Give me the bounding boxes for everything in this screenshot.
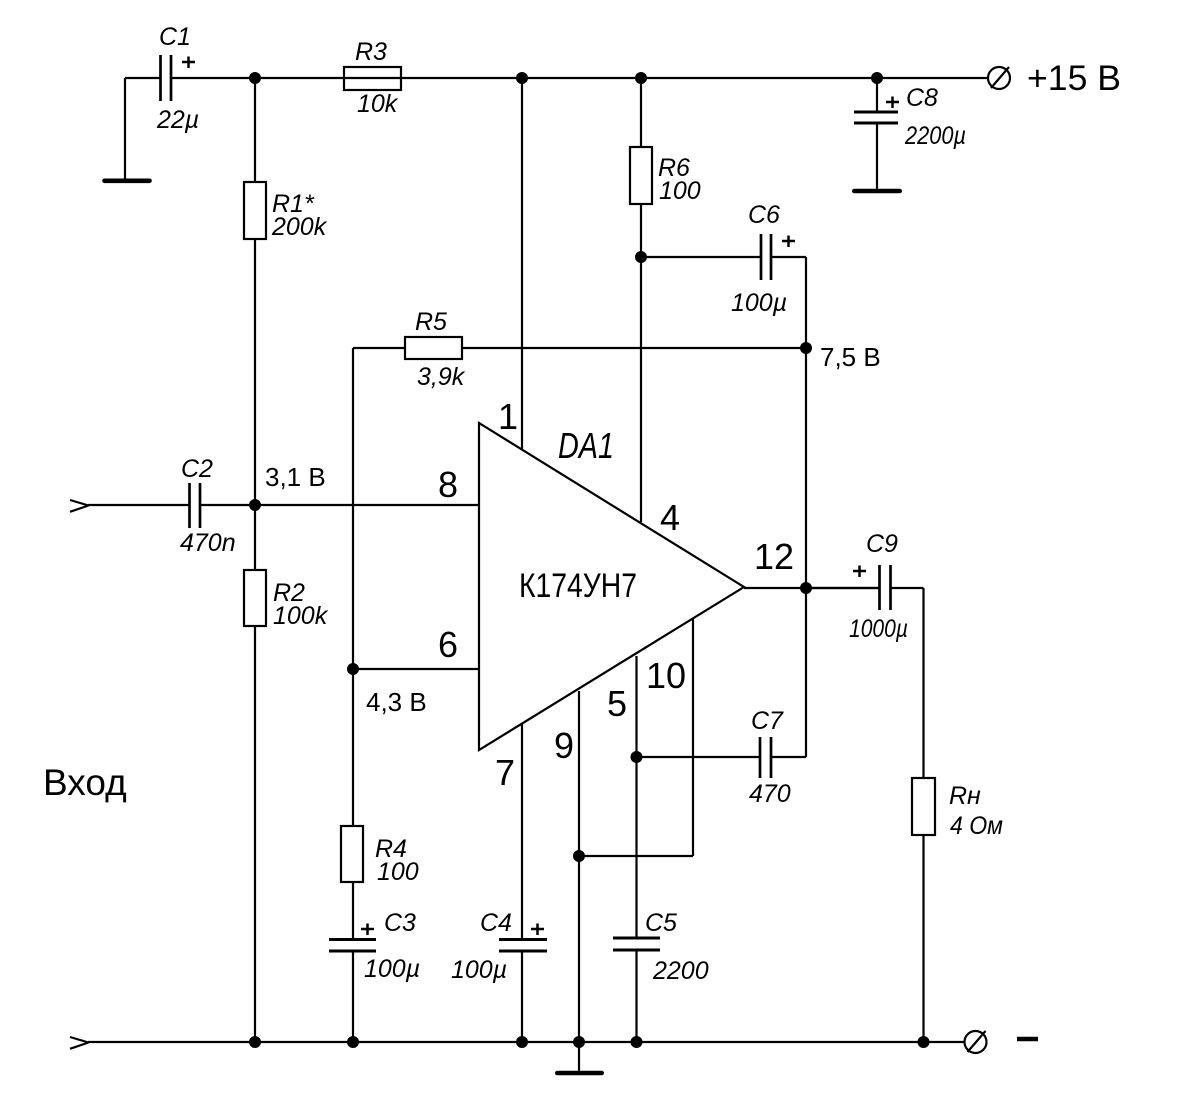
node junction pin9 link [573,850,585,862]
svg-text:C7: C7 [751,707,784,735]
svg-text:7: 7 [495,752,515,793]
capacitor C6 [641,201,806,317]
wire bottom rail [88,1041,965,1043]
resistor R4 [341,669,419,886]
svg-text:4 Ом: 4 Ом [950,812,1003,840]
svg-text:100µ: 100µ [364,955,420,983]
node junction top rail / R1 [249,72,261,84]
resistor R3 [344,38,401,118]
resistor R6 [630,78,701,257]
node junction pin6 / R5 / R4 [347,663,359,675]
svg-text:4: 4 [660,497,680,538]
resistor R5 [353,308,806,391]
svg-text:C3: C3 [384,909,416,937]
node junction top rail / pin1 [516,72,528,84]
wire R1 to input node [254,239,256,505]
node junction bottom rail / R2 [249,1036,261,1048]
svg-text:200k: 200k [271,213,328,241]
svg-text:3,9k: 3,9k [417,363,466,391]
wire R6 node to pin 4 [640,257,642,522]
wire top rail [171,77,988,79]
svg-text:1000µ: 1000µ [849,615,908,643]
wire R5 down to pin 6 node [352,348,354,669]
svg-text:C9: C9 [866,530,898,558]
svg-text:6: 6 [438,624,458,665]
node junction pin12 [800,582,812,594]
node junction bottom rail / Rn [918,1036,930,1048]
node junction C7 / pin5 [631,751,643,763]
node junction bottom rail / pin9 [573,1036,585,1048]
wire C2 to pin 8 [200,504,479,506]
resistor R1 [244,78,328,241]
svg-text:C5: C5 [645,909,677,937]
svg-text:10k: 10k [357,90,399,118]
svg-text:4,3 В: 4,3 В [366,687,427,717]
wire input [88,504,190,506]
capacitor C5 [613,909,709,985]
capacitor C8 [854,78,966,189]
svg-text:C1: C1 [159,23,191,51]
wire link pin9 to pin10 [579,855,693,857]
svg-text:22µ: 22µ [156,106,199,134]
op-amp DA1 [479,423,744,750]
svg-text:8: 8 [438,464,458,505]
input arrow bottom [70,1037,89,1049]
svg-text:2200: 2200 [652,957,709,985]
svg-text:К174УН7: К174УН7 [519,567,637,605]
svg-text:2200µ: 2200µ [904,122,966,150]
terminal +15V [988,59,1121,98]
pin 7 wire [521,724,523,940]
svg-text:+15 В: +15 В [1027,59,1121,98]
node junction bottom rail / C3 [347,1036,359,1048]
ground (bottom) [557,1042,601,1073]
pin 5 wire [635,656,637,938]
svg-text:5: 5 [607,683,627,724]
svg-text:DA1: DA1 [558,425,614,466]
wire Rn to bottom rail [922,835,924,1042]
svg-text:7,5 В: 7,5 В [820,342,881,372]
resistor Rn [912,778,1003,840]
svg-text:Вход: Вход [43,762,127,803]
capacitor C1 [125,23,199,134]
node junction top rail / R6 [635,72,647,84]
svg-text:R3: R3 [355,38,387,66]
node 7.5V junction [800,342,812,354]
ground (C1) [105,179,150,184]
svg-text:100k: 100k [273,602,329,630]
svg-text:12: 12 [754,536,794,577]
svg-text:100µ: 100µ [451,956,507,984]
svg-text:C8: C8 [906,84,938,112]
svg-text:C6: C6 [748,201,780,229]
svg-text:C4: C4 [480,909,512,937]
svg-text:R5: R5 [415,308,447,336]
svg-text:Rн: Rн [949,782,981,810]
svg-text:100: 100 [377,858,419,886]
wire C9 down to Rn [922,588,924,778]
pin 1 wire [521,78,523,450]
pin 9 wire [578,691,580,1042]
pin 12 wire [744,587,879,589]
capacitor C2 [180,455,236,557]
node junction bottom rail / C5 [631,1036,643,1048]
node junction input / R2 [249,499,261,511]
capacitor C3 [329,882,420,1042]
wire C6 down right column [805,257,807,757]
pin 10 wire [692,618,694,856]
terminal minus [965,1031,1039,1053]
resistor R2 [244,505,329,630]
svg-text:C2: C2 [181,455,213,483]
svg-text:3,1 В: 3,1 В [265,462,326,492]
svg-text:470: 470 [749,780,791,808]
capacitor C7 [637,707,807,808]
capacitor C4 [451,909,547,984]
input arrow top [70,500,89,512]
node junction bottom rail / pin7 [516,1036,528,1048]
svg-text:9: 9 [554,725,574,766]
svg-text:1: 1 [498,396,518,437]
node junction top rail / C8 [871,72,883,84]
wire R2 to bottom rail [254,626,256,1042]
wire C1 to ground [124,78,126,179]
svg-text:100: 100 [659,177,701,205]
capacitor C9 [806,530,924,643]
svg-text:10: 10 [646,655,686,696]
node junction R6 / C6 [635,251,647,263]
ground (C8) [854,189,899,194]
svg-text:100µ: 100µ [731,289,787,317]
pin 6 wire [353,668,479,670]
svg-text:470n: 470n [180,529,236,557]
